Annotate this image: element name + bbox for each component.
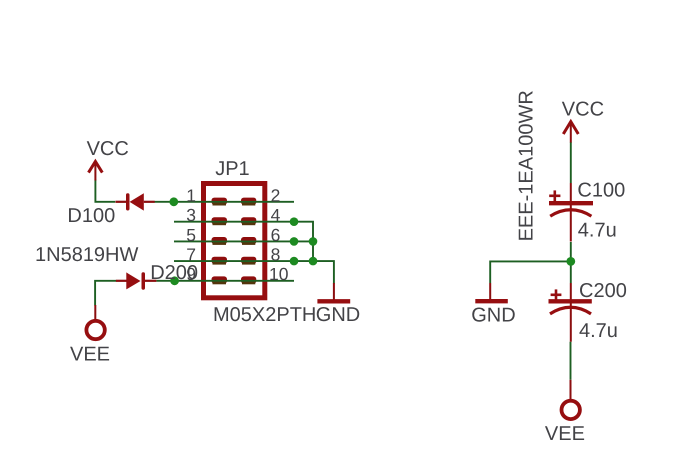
diode D100 <box>116 193 155 210</box>
wire row pins 1-2 <box>155 201 295 203</box>
supply VEE right <box>562 380 580 419</box>
junction node pin8 left <box>290 257 299 266</box>
supply VCC right <box>563 122 578 143</box>
svg-text:D100: D100 <box>67 205 115 227</box>
svg-text:EEE-1EA100WR: EEE-1EA100WR <box>515 90 537 241</box>
svg-text:M05X2PTH: M05X2PTH <box>213 304 316 326</box>
ground GND right <box>475 283 508 301</box>
svg-text:10: 10 <box>269 264 289 284</box>
wire C100 to junction <box>570 242 572 261</box>
JP1 pin 8 pad <box>241 257 256 265</box>
svg-text:4: 4 <box>271 205 281 225</box>
wire row pins 7-8 to GND <box>174 261 334 283</box>
svg-text:9: 9 <box>186 264 196 284</box>
ground GND middle <box>317 283 350 301</box>
JP1 pin 9 pad <box>212 276 228 284</box>
supply VCC left <box>89 162 103 181</box>
wire junction to GND (right) <box>490 261 571 283</box>
JP1 pin 6 pad <box>241 237 256 245</box>
JP1 pin 4 pad <box>241 217 256 225</box>
junction node capacitors/GND <box>566 257 575 266</box>
svg-text:C100: C100 <box>577 179 625 201</box>
svg-text:7: 7 <box>186 245 196 265</box>
wire row pins 5-6 <box>174 240 313 242</box>
JP1 pin 5 pad <box>212 237 228 245</box>
JP1 pin 7 pad <box>212 257 228 265</box>
wire junction to C200 <box>570 261 572 283</box>
wire row pins 9-10 <box>156 280 294 282</box>
svg-text:JP1: JP1 <box>215 158 249 180</box>
svg-text:VEE: VEE <box>70 343 110 365</box>
JP1 pin 3 pad <box>212 217 228 225</box>
JP1 pin 1 pad <box>212 198 228 206</box>
svg-text:8: 8 <box>271 245 281 265</box>
svg-text:5: 5 <box>186 225 196 245</box>
svg-text:VEE: VEE <box>545 423 585 445</box>
svg-text:VCC: VCC <box>87 138 129 160</box>
svg-text:GND: GND <box>471 305 515 327</box>
junction node pin6 right <box>309 237 318 246</box>
connector JP1 body <box>204 184 265 298</box>
svg-text:4.7u: 4.7u <box>579 320 618 342</box>
svg-text:3: 3 <box>186 205 196 225</box>
wire D200 to VEE (left) <box>95 281 116 306</box>
wire row pins 3-4 <box>174 222 313 261</box>
wire VCC to C100 (right) <box>570 142 572 183</box>
svg-text:1: 1 <box>186 185 196 205</box>
svg-text:6: 6 <box>271 225 281 245</box>
capacitor C200 <box>549 283 592 342</box>
svg-text:2: 2 <box>271 185 281 205</box>
svg-text:VCC: VCC <box>562 99 604 121</box>
junction node pin8 right <box>309 257 318 266</box>
svg-text:GND: GND <box>316 304 360 326</box>
svg-text:1N5819HW: 1N5819HW <box>35 244 139 266</box>
junction node pin1/D100 <box>169 197 178 206</box>
junction node pin9/D200 <box>170 276 179 285</box>
junction node pin6 left <box>290 237 299 246</box>
svg-text:4.7u: 4.7u <box>578 219 617 241</box>
wire C200 to VEE (right) <box>570 342 572 380</box>
svg-text:C200: C200 <box>579 280 627 302</box>
diode D200 <box>116 272 156 289</box>
wire VCC to D100 <box>95 180 115 202</box>
supply VEE left <box>86 305 104 339</box>
JP1 pin 2 pad <box>241 198 256 206</box>
junction node pin4 <box>290 217 299 226</box>
JP1 pin 10 pad <box>241 276 256 284</box>
capacitor C100 <box>549 183 593 242</box>
